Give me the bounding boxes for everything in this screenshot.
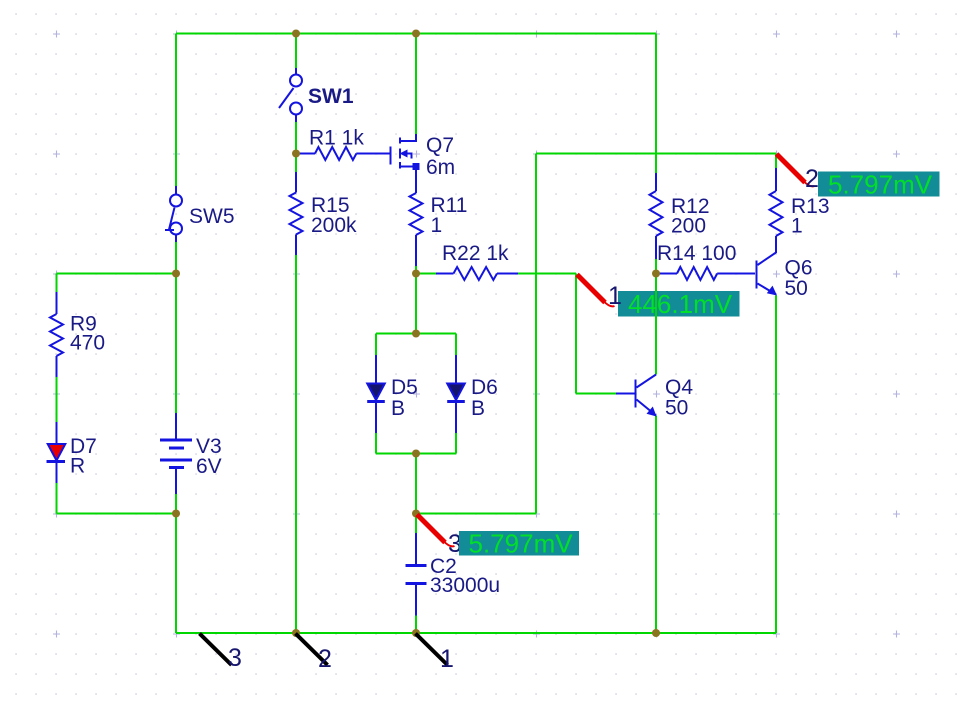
svg-text:5.797mV: 5.797mV bbox=[469, 529, 574, 559]
wire D5 D6 top rail bbox=[376, 333, 456, 335]
wire between R9 and D7 bbox=[56, 377, 58, 422]
diode D5 bbox=[367, 355, 385, 433]
wire Q4 emitter to bottom rail bbox=[655, 416, 657, 634]
wire left column bottom node to bottom rail bbox=[175, 514, 177, 634]
svg-text:6V: 6V bbox=[196, 455, 222, 478]
switch SW5 bbox=[165, 186, 182, 242]
svg-text:1: 1 bbox=[608, 282, 622, 310]
svg-text:200k: 200k bbox=[311, 214, 357, 237]
junction node D5 D6 top bbox=[412, 330, 420, 338]
junction node top Q7 column bbox=[412, 30, 420, 38]
wire below C2 to bottom rail bbox=[415, 616, 417, 634]
junction node left column R9 branch bbox=[172, 270, 180, 278]
wire R12 column upper bbox=[655, 34, 657, 174]
wire bottom rail bbox=[176, 632, 776, 634]
resistor R15 bbox=[290, 172, 303, 255]
svg-text:SW5: SW5 bbox=[189, 205, 235, 228]
junction node top SW1 column bbox=[292, 30, 300, 38]
pin 3 black lead bottom left bbox=[200, 634, 232, 666]
wire below D7 bbox=[56, 483, 58, 514]
transistor Q4 bbox=[616, 375, 657, 417]
svg-text:6m: 6m bbox=[426, 156, 455, 179]
wire R12 below resistor to node bbox=[655, 259, 657, 274]
svg-text:1: 1 bbox=[440, 645, 454, 673]
measurement box 5.797mV top right bbox=[818, 172, 940, 197]
wire SW1 column above switch bbox=[295, 34, 297, 69]
svg-text:5.797mV: 5.797mV bbox=[828, 170, 933, 200]
wire R15 column node to resistor bbox=[295, 154, 297, 173]
svg-text:200: 200 bbox=[671, 215, 706, 238]
svg-text:3: 3 bbox=[228, 644, 242, 672]
wire C2 node to capacitor top lead bbox=[415, 514, 417, 534]
wire left column upper segment bbox=[175, 34, 177, 187]
resistor R22 bbox=[436, 267, 518, 280]
svg-text:1: 1 bbox=[791, 215, 803, 238]
wire D5 D6 bottom rail bbox=[376, 453, 456, 455]
wire D5 branch lower bbox=[375, 433, 377, 454]
wire Q6 emitter down right column bbox=[775, 296, 777, 634]
svg-text:470: 470 bbox=[70, 332, 105, 355]
wire corner down to Q4 base row bbox=[575, 274, 577, 394]
svg-text:B: B bbox=[391, 397, 405, 420]
svg-text:446.1mV: 446.1mV bbox=[628, 289, 733, 319]
transistor Q6 bbox=[757, 253, 778, 296]
svg-text:1: 1 bbox=[431, 214, 443, 237]
wire R9 branch top horizontal bbox=[57, 273, 177, 275]
wire SW1 column below switch to node bbox=[295, 122, 297, 154]
pin 2 black lead bottom middle bbox=[296, 634, 328, 666]
measurement box background 446.1mV bbox=[618, 291, 740, 317]
wire R15 column below resistor to bottom rail bbox=[295, 255, 297, 633]
measurement box 5.797mV bottom bbox=[459, 531, 579, 556]
junction node V3 bottom bbox=[172, 510, 180, 518]
wire x536 vertical riser bbox=[535, 154, 537, 514]
svg-text:50: 50 bbox=[665, 397, 688, 420]
svg-text:R1 1k: R1 1k bbox=[309, 127, 364, 150]
wire D5 branch upper bbox=[375, 334, 377, 356]
svg-text:Q7: Q7 bbox=[426, 134, 454, 157]
svg-text:33000u: 33000u bbox=[430, 574, 500, 597]
resistor R13 bbox=[770, 168, 783, 253]
wire R13 column top stub bbox=[775, 154, 777, 169]
wire D6 branch lower bbox=[455, 433, 457, 454]
wire C2 node horizontal to x536 bbox=[416, 513, 536, 515]
wire Q7 drain column bbox=[415, 34, 417, 135]
svg-text:2: 2 bbox=[318, 645, 332, 673]
wire node down to Q4 collector bbox=[655, 274, 657, 375]
battery V3 bbox=[160, 413, 192, 494]
junction node R12 R14 bbox=[652, 270, 660, 278]
wire left column below V3 to bottom node bbox=[175, 494, 177, 514]
junction node R1 SW1 bbox=[292, 150, 300, 158]
wire left column between SW5 and node at y273 bbox=[175, 242, 177, 274]
resistor R11 bbox=[410, 169, 423, 266]
svg-text:R: R bbox=[70, 455, 85, 478]
wire node to D5 D6 top rail bbox=[415, 274, 417, 334]
svg-text:R22 1k: R22 1k bbox=[442, 242, 509, 265]
diode D7 red bbox=[47, 422, 66, 483]
junction node bottom rail C2 column bbox=[412, 629, 420, 637]
svg-text:R14 100: R14 100 bbox=[657, 242, 736, 265]
svg-text:50: 50 bbox=[785, 277, 808, 300]
junction node bottom rail SW column bbox=[292, 629, 300, 637]
junction node bottom rail Q4 column bbox=[652, 629, 660, 637]
wire D6 branch upper bbox=[455, 334, 457, 356]
wire R22 right to corner bbox=[518, 273, 576, 275]
pin 1 black lead bottom right bbox=[416, 634, 448, 666]
wire left column node to V3 top lead bbox=[175, 274, 177, 414]
resistor R12 bbox=[650, 173, 663, 259]
junction node R11 R22 bbox=[412, 270, 420, 278]
wire R9 branch bottom horizontal bbox=[57, 513, 177, 515]
capacitor C2 bbox=[406, 533, 427, 616]
svg-text:SW1: SW1 bbox=[308, 85, 354, 108]
junction node D5 D6 bottom bbox=[412, 450, 420, 458]
wire Q4 base row bbox=[576, 393, 616, 395]
wire D5 D6 bottom node to C2 node bbox=[415, 454, 417, 514]
svg-text:2: 2 bbox=[805, 165, 819, 193]
svg-text:D6: D6 bbox=[471, 376, 498, 399]
wire R9 branch left column upper bbox=[56, 274, 58, 293]
switch SW1 bbox=[279, 68, 302, 122]
svg-text:D5: D5 bbox=[391, 376, 418, 399]
resistor R9 bbox=[50, 292, 63, 377]
probe 2 red at R13 top bbox=[777, 154, 815, 186]
resistor R14 bbox=[656, 267, 755, 280]
wire top right horizontal to R13 column bbox=[536, 153, 776, 155]
diode D6 bbox=[447, 355, 465, 433]
mosfet Q7 bbox=[391, 134, 420, 170]
probe 1 red at R22 end bbox=[577, 275, 615, 307]
wire node R22 short left segment bbox=[416, 273, 436, 275]
resistor R1 bbox=[296, 147, 391, 160]
probe 3 red at C2 node bbox=[417, 515, 455, 547]
wire top rail from node V+ left corner to R12 column bbox=[176, 33, 656, 35]
wire below R11 to node bbox=[415, 266, 417, 274]
junction node C2 top probe3 bbox=[412, 510, 420, 518]
svg-text:B: B bbox=[471, 397, 485, 420]
